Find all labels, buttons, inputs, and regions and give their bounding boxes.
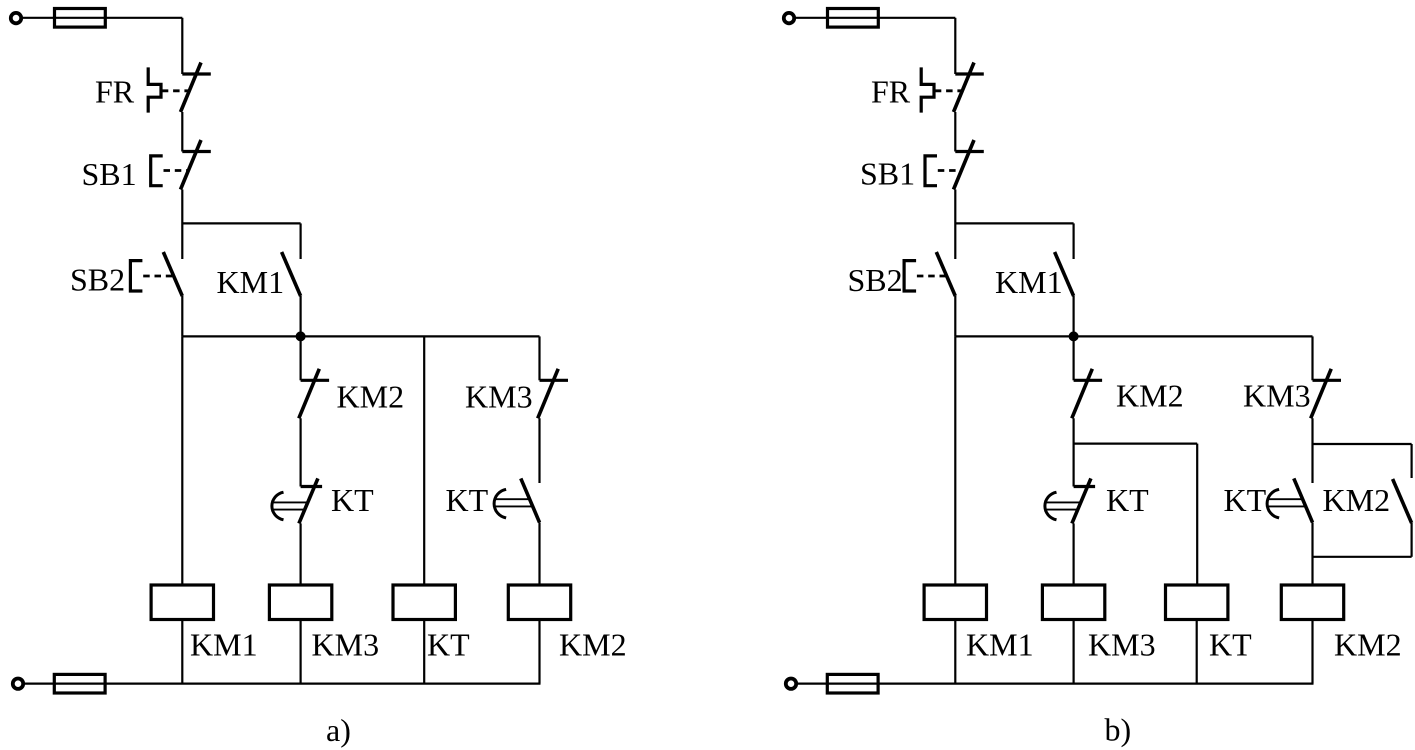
- wire KM2 to KT contact (b): [1072, 418, 1074, 486]
- svg-text:KM2: KM2: [1323, 482, 1391, 518]
- wire coil KM2 to bottom rail (b): [1311, 620, 1313, 684]
- wire branch drop to KM1 contact (b): [1072, 223, 1074, 259]
- wire KM3 to KT contact (b): [1311, 418, 1313, 483]
- wire coil KM2 to bottom rail (a): [538, 620, 540, 684]
- contact KM2 NO bypass (b): [1393, 479, 1412, 523]
- wire node line (b): [955, 335, 1312, 337]
- wire node to KM3 contact (b): [1311, 336, 1313, 380]
- wire top rail (a): [21, 17, 182, 19]
- wire node to KM2 contact (a): [300, 336, 302, 380]
- wire rung3 node to KT coil (a): [423, 336, 425, 585]
- svg-text:KM3: KM3: [1088, 627, 1156, 663]
- dashed actuator link FR (b): [935, 89, 963, 92]
- coil KM3 (b): [1042, 585, 1104, 620]
- svg-text:KT: KT: [1209, 627, 1252, 663]
- contact SB2 NO (a): [163, 252, 182, 296]
- svg-text:b): b): [1105, 712, 1132, 748]
- wire KT contact to KM3 coil (b): [1072, 523, 1074, 585]
- coil KM1 (b): [924, 585, 986, 620]
- wire top rail (b): [794, 17, 955, 19]
- svg-text:KT: KT: [1106, 482, 1149, 518]
- wire KM2 to KT contact (a): [300, 418, 302, 486]
- contact SB1 NC (a): [181, 140, 211, 190]
- contact KM1 NO (b): [1055, 252, 1074, 296]
- wire KM2-NO branch top (b): [1313, 443, 1412, 445]
- fuse FU2 (b): [827, 674, 878, 693]
- contact FR NC (a): [181, 63, 211, 113]
- svg-text:SB1: SB1: [82, 156, 137, 192]
- contact KT delayed NC (a rung2): [272, 478, 322, 523]
- wire branch top horizontal (a): [182, 222, 300, 224]
- svg-text:KM3: KM3: [1243, 378, 1311, 414]
- wire coil KM1 to bottom rail (a): [181, 620, 183, 684]
- contact FR NC (b): [954, 63, 984, 113]
- wire FR to SB1 (b): [954, 112, 956, 152]
- junction node (b): [1069, 331, 1079, 341]
- dashed actuator link SB1 (a): [164, 169, 189, 172]
- wire branch KM2-KT horizontal (b): [1074, 443, 1198, 445]
- svg-text:FR: FR: [871, 74, 911, 110]
- wire KM1 contact to node (b): [1072, 296, 1074, 336]
- junction node (a): [296, 331, 306, 341]
- wire rung1 node to coil (b): [954, 336, 956, 585]
- thermal element FR (a): [148, 67, 161, 112]
- svg-text:KM2: KM2: [1334, 627, 1402, 663]
- svg-text:KM3: KM3: [465, 378, 533, 414]
- wire SB2 to node line (a): [181, 296, 183, 336]
- coil KT (b): [1166, 585, 1228, 620]
- coil KM1 (a): [151, 585, 213, 620]
- svg-text:KM1: KM1: [217, 264, 285, 300]
- wire KM1 contact to node (a): [300, 296, 302, 336]
- svg-text:KT: KT: [331, 482, 374, 518]
- wire KT to KM2 coil (b): [1311, 522, 1313, 585]
- pushbutton SB1 (b): [925, 156, 937, 186]
- wire rung1 node to coil (a): [181, 336, 183, 585]
- wire coil KM3 to bottom rail (b): [1072, 620, 1074, 684]
- svg-text:SB2: SB2: [70, 262, 125, 298]
- wire KM2-NO branch down (b): [1410, 523, 1412, 557]
- svg-text:KM1: KM1: [966, 627, 1034, 663]
- terminal bottom (a): [13, 679, 23, 689]
- wire KM3 to KT contact (a): [538, 418, 540, 483]
- dashed actuator link SB2 (a): [143, 275, 173, 278]
- wire KM2-NO branch bottom (b): [1313, 556, 1412, 558]
- wire KT to KM2 coil (a): [538, 522, 540, 585]
- wire node line (a): [182, 335, 539, 337]
- terminal bottom (b): [786, 679, 796, 689]
- wire node to KM3 contact (a): [538, 336, 540, 380]
- dashed actuator link SB2 (b): [917, 275, 946, 278]
- svg-text:KT: KT: [446, 482, 489, 518]
- fuse FU1 (b): [828, 9, 879, 28]
- wire SB2 to node line (b): [954, 296, 956, 336]
- coil KM2 (a): [508, 585, 570, 620]
- wire KT contact to KM3 coil (a): [300, 523, 302, 585]
- contact SB2 NO (b): [936, 252, 955, 296]
- wire drop to FR (b): [954, 18, 956, 74]
- svg-text:SB1: SB1: [860, 156, 915, 192]
- svg-text:KM2: KM2: [1116, 378, 1184, 414]
- svg-text:KM2: KM2: [337, 378, 405, 414]
- wire branch top horizontal (b): [955, 222, 1073, 224]
- pushbutton SB1 (a): [151, 156, 163, 186]
- wire SB1 to branch (b): [954, 190, 956, 260]
- wire rung3 branch to KT coil (b): [1196, 444, 1198, 585]
- wire KM2-NO branch drop (b): [1410, 444, 1412, 478]
- coil KM2 (b): [1281, 585, 1343, 620]
- contact KT delayed NC (b rung2): [1045, 478, 1095, 523]
- contact KM1 NO (a): [282, 252, 301, 296]
- thermal element FR (b): [921, 67, 934, 112]
- contact KM2 NC (b): [1072, 369, 1102, 419]
- contact SB1 NC (b): [954, 140, 984, 190]
- svg-text:a): a): [326, 712, 351, 748]
- dashed actuator link FR (a): [162, 89, 190, 92]
- svg-text:KT: KT: [427, 627, 470, 663]
- contact KM3 NC (a): [538, 369, 568, 419]
- wire coil KT to bottom rail (b): [1196, 620, 1198, 684]
- contact KT delayed NC mirrored (a rung4): [494, 478, 539, 522]
- wire branch drop to KM1 contact (a): [300, 223, 302, 259]
- pushbutton SB2 (b): [904, 261, 916, 291]
- contact KM2 NC (a): [299, 369, 329, 419]
- wire coil KM3 to bottom rail (a): [300, 620, 302, 684]
- coil KT (a): [393, 585, 455, 620]
- wire bottom rail (b): [796, 682, 1314, 684]
- wire SB1 to branch (a): [181, 190, 183, 260]
- fuse FU1 (a): [55, 9, 106, 28]
- wire drop to FR (a): [181, 18, 183, 74]
- svg-text:KM2: KM2: [559, 627, 627, 663]
- wire bottom rail (a): [23, 682, 541, 684]
- svg-text:KM3: KM3: [312, 627, 380, 663]
- wire FR to SB1 (a): [181, 112, 183, 152]
- svg-text:KM1: KM1: [190, 627, 258, 663]
- wire node to KM2 contact (b): [1072, 336, 1074, 380]
- wire coil KM1 to bottom rail (b): [954, 620, 956, 684]
- dashed actuator link SB1 (b): [938, 169, 962, 172]
- contact KT delayed NC mirrored (b rung4): [1267, 478, 1312, 522]
- terminal top (a): [11, 13, 21, 23]
- svg-text:SB2: SB2: [848, 262, 903, 298]
- coil KM3 (a): [269, 585, 331, 620]
- pushbutton SB2 (a): [130, 261, 142, 291]
- terminal top (b): [784, 13, 794, 23]
- svg-text:KT: KT: [1224, 482, 1267, 518]
- svg-text:FR: FR: [95, 74, 135, 110]
- wire coil KT to bottom rail (a): [423, 620, 425, 684]
- fuse FU2 (a): [54, 674, 105, 693]
- svg-text:KM1: KM1: [995, 264, 1063, 300]
- contact KM3 NC (b): [1311, 369, 1341, 419]
